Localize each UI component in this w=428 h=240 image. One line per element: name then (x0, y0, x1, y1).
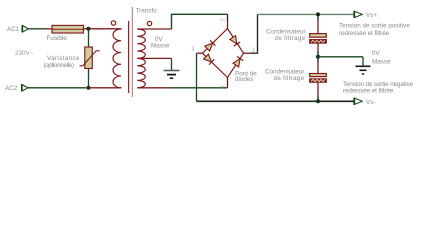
svg-text:(optionnelle): (optionnelle) (44, 62, 74, 69)
capacitor C2 (310, 74, 327, 83)
wire C1 top (317, 14, 319, 20)
fuse F1 body (52, 25, 84, 33)
junction V- at C2 (316, 99, 320, 103)
transformer secondary phase dot (147, 21, 151, 25)
wire mid node to ground (318, 56, 363, 58)
wire varistor bottom (88, 69, 90, 88)
junction top of varistor branch (87, 27, 91, 31)
transformer primary phase dot (111, 21, 115, 25)
svg-text:Masse: Masse (372, 59, 391, 66)
connector pinhead Vs+ (354, 11, 362, 18)
wire AC1 net (28, 28, 46, 30)
wire to transformer primary bottom (89, 87, 122, 89)
svg-text:redressée et filtrée: redressée et filtrée (343, 88, 394, 95)
svg-text:redressée et filtrée: redressée et filtrée (339, 30, 390, 37)
connector pinhead AC1 (22, 25, 28, 32)
junction bottom of varistor branch (87, 86, 91, 90)
svg-text:de filtrage: de filtrage (275, 35, 306, 42)
ground (center tap) (164, 58, 180, 78)
wire V+ rail (258, 13, 354, 15)
wire C2 top (317, 63, 319, 74)
svg-text:2: 2 (221, 18, 227, 21)
bridge rectifier B1 diamond (203, 29, 244, 78)
svg-text:AC2: AC2 (5, 85, 18, 92)
wire minus output down (196, 53, 198, 101)
wire secondary center tap (137, 57, 171, 59)
svg-text:Tension de sortie positive: Tension de sortie positive (339, 22, 410, 29)
varistor RV1 body (80, 47, 100, 69)
junction V+ at C1 (316, 12, 320, 16)
svg-text:AC1: AC1 (7, 26, 20, 33)
wire varistor top (88, 29, 90, 47)
junction mid node 0V (316, 55, 320, 59)
wire fuse to transformer primary (84, 28, 122, 30)
svg-text:Masse: Masse (151, 43, 170, 50)
svg-text:3: 3 (192, 47, 195, 53)
svg-text:Vs+: Vs+ (366, 12, 377, 19)
capacitor C1 (310, 34, 327, 44)
diode D4 bottom-right (233, 56, 244, 67)
svg-text:230V~: 230V~ (15, 50, 34, 57)
transformer T1 primary winding (113, 29, 121, 88)
svg-text:Fusible: Fusible (47, 35, 68, 42)
svg-text:de filtrage: de filtrage (274, 75, 305, 82)
wire bridge pin 3 stub (197, 52, 203, 54)
ground (output 0V) (356, 57, 371, 74)
svg-text:4: 4 (221, 85, 227, 88)
connector pinhead Vs- (354, 98, 362, 105)
wire V- rail (197, 100, 354, 102)
diode D2 top-right (229, 35, 240, 46)
transformer core line 1 (128, 21, 130, 93)
connector pinhead AC2 (22, 84, 28, 91)
wire C1 bottom to mid node (317, 43, 319, 51)
wire bridge pin 2 riser (227, 14, 229, 21)
diode D1 top-left (205, 40, 216, 51)
wire bridge pin 1 stub (244, 52, 251, 54)
diode D3 bottom-left (203, 54, 214, 65)
wire bottom AC feed to bridge (170, 87, 228, 89)
wire secondary top tap (137, 28, 171, 30)
wire bridge pin 4 riser (227, 78, 229, 88)
wire up to top AC feed (172, 14, 228, 29)
wire secondary bottom tap (137, 87, 170, 89)
transformer core line 2 (131, 7, 133, 97)
wire C2 bottom (317, 82, 319, 95)
svg-text:diodes: diodes (235, 76, 254, 83)
transformer secondary winding (137, 29, 145, 88)
wire fuse pin left (47, 28, 53, 30)
svg-text:Vs-: Vs- (366, 99, 375, 106)
wire plus output to rail (250, 14, 258, 53)
svg-text:0V: 0V (372, 50, 381, 57)
svg-text:Transfo: Transfo (136, 8, 158, 15)
wire AC2 net (28, 87, 86, 89)
